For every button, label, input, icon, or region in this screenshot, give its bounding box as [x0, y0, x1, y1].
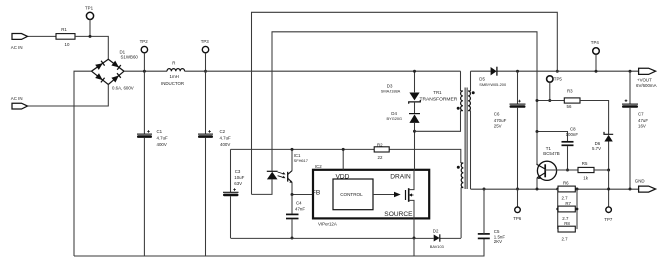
- optocoupler IC1 phototransistor: [288, 148, 294, 195]
- svg-text:400V: 400V: [220, 142, 230, 147]
- svg-text:10uF: 10uF: [234, 175, 244, 180]
- D1 diode bottom-left: [95, 73, 103, 80]
- opto light arrows: [278, 172, 284, 174]
- svg-text:2.7: 2.7: [562, 236, 569, 241]
- wire: primary bottom ground rail: [74, 239, 484, 256]
- svg-text:TRANSFORMER: TRANSFORMER: [420, 97, 458, 103]
- svg-text:C8: C8: [570, 126, 576, 131]
- svg-text:22: 22: [378, 155, 383, 160]
- svg-text:R7: R7: [565, 201, 571, 206]
- wire: LED cathode node to R3: [537, 100, 564, 102]
- wire: R1 to bridge top: [75, 36, 108, 59]
- svg-text:INDUCTOR: INDUCTOR: [161, 81, 184, 86]
- svg-text:2.7: 2.7: [562, 195, 569, 200]
- svg-text:R1: R1: [61, 27, 67, 32]
- svg-text:SMAJ188A: SMAJ188A: [381, 88, 401, 93]
- wire: LED anode rail: [252, 179, 273, 194]
- test point TP1: [85, 5, 94, 38]
- svg-text:56: 56: [567, 104, 572, 109]
- capacitor C3: [223, 149, 245, 238]
- svg-text:BYG20G: BYG20G: [387, 116, 403, 121]
- capacitor C8: [536, 126, 579, 171]
- diode D5 SMBYW05-200: [479, 67, 507, 87]
- svg-text:AC IN: AC IN: [11, 96, 23, 101]
- svg-text:0.6A, 600V: 0.6A, 600V: [112, 85, 134, 90]
- svg-text:4.7uF: 4.7uF: [157, 136, 169, 141]
- svg-text:SOURCE: SOURCE: [384, 211, 413, 218]
- svg-text:S1WB60: S1WB60: [121, 55, 139, 60]
- svg-text:TP4: TP4: [591, 40, 600, 45]
- svg-text:63V: 63V: [234, 181, 242, 186]
- wire: source rail to bottom rail link: [413, 238, 415, 256]
- wire: primary bottom to drain node: [415, 111, 461, 132]
- svg-text:TP2: TP2: [140, 39, 149, 44]
- svg-text:C1: C1: [157, 129, 163, 134]
- capacitor C7: [622, 70, 648, 191]
- wire: DC bus from bridge to inductor: [124, 70, 167, 72]
- svg-text:47nF: 47nF: [295, 206, 305, 211]
- svg-text:R8: R8: [564, 221, 570, 226]
- diode D3 SMAJ188A transil: [381, 70, 421, 104]
- secondary winding: [470, 71, 472, 91]
- core: [465, 88, 467, 190]
- wire: VDD line from C3 to aux winding: [231, 149, 461, 163]
- svg-text:6V/600mA: 6V/600mA: [636, 83, 657, 88]
- svg-text:R5: R5: [582, 161, 588, 166]
- optocoupler IC1 SFH617 LED: [267, 153, 308, 179]
- resistor R8 parallel: [558, 221, 575, 241]
- svg-text:1mH: 1mH: [170, 74, 179, 79]
- svg-text:AC IN: AC IN: [11, 45, 23, 50]
- test point TP6: [513, 189, 522, 221]
- svg-text:BC547B: BC547B: [543, 151, 559, 156]
- svg-text:5.7V: 5.7V: [592, 146, 601, 151]
- wire: AC IN bottom to bridge: [28, 85, 109, 107]
- wire: FB line to IC2: [292, 194, 313, 196]
- svg-text:C6: C6: [494, 111, 500, 116]
- svg-text:2KV: 2KV: [494, 239, 502, 244]
- diode D4 BYG20G: [387, 102, 421, 131]
- test point TP7: [604, 207, 613, 222]
- svg-text:470uF: 470uF: [494, 118, 507, 123]
- resistor R3: [564, 89, 580, 110]
- resistor R7 parallel: [556, 189, 578, 229]
- svg-text:R6: R6: [563, 180, 569, 185]
- svg-text:C3: C3: [235, 169, 241, 174]
- wire: outer feedback loop (LED anode to output): [252, 12, 558, 194]
- wire: secondary ground rail: [471, 188, 639, 190]
- resistor R2: [374, 142, 389, 160]
- connector AC IN (top): [11, 34, 28, 51]
- zener diode D6: [592, 132, 613, 170]
- svg-text:SFH617: SFH617: [294, 158, 308, 163]
- svg-text:100nF: 100nF: [566, 132, 579, 137]
- svg-text:VIPer12A: VIPer12A: [318, 222, 337, 227]
- svg-text:25V: 25V: [494, 124, 502, 129]
- wire: R3 to zener D6: [580, 101, 609, 135]
- transformer TR1: [420, 71, 475, 238]
- wire: output rail with D5: [471, 70, 639, 72]
- D1 diode top-right: [111, 61, 119, 68]
- svg-text:16V: 16V: [638, 124, 646, 129]
- svg-text:IC2: IC2: [315, 164, 322, 169]
- capacitor C5: [478, 188, 506, 245]
- resistor R6: [556, 180, 578, 200]
- connector AC IN (bottom): [11, 96, 28, 109]
- svg-text:C7: C7: [638, 111, 644, 116]
- primary winding: [460, 71, 462, 91]
- internal mosfet: [405, 190, 407, 200]
- svg-text:TP5: TP5: [554, 77, 563, 82]
- svg-text:TP3: TP3: [201, 39, 210, 44]
- svg-text:47uF: 47uF: [638, 118, 648, 123]
- bridge rectifier D1 diamond: [92, 50, 139, 91]
- svg-text:4.7uF: 4.7uF: [220, 136, 232, 141]
- wire: VDD pin: [342, 149, 344, 169]
- wire: IC2 source pin to ground rail: [413, 218, 415, 238]
- svg-text:TP7: TP7: [604, 217, 613, 222]
- svg-text:R3: R3: [567, 89, 573, 94]
- svg-text:GND: GND: [635, 178, 645, 183]
- control block: [333, 179, 373, 210]
- wire: inductor to transformer primary top: [185, 70, 461, 72]
- diode D2 BAV103: [430, 229, 444, 250]
- svg-text:SMBYW05-200: SMBYW05-200: [479, 82, 507, 87]
- svg-text:TR1: TR1: [433, 90, 442, 95]
- svg-text:D2: D2: [433, 229, 439, 234]
- wire: inner feedback loop (LED cathode to T1 collector): [272, 32, 537, 171]
- IC2 VIPer12A box: [312, 164, 429, 227]
- svg-text:D5: D5: [479, 77, 485, 82]
- wire: bridge minus to primary ground: [74, 71, 92, 256]
- svg-text:TP1: TP1: [85, 5, 94, 10]
- svg-text:1k: 1k: [583, 176, 588, 181]
- capacitor C2: [198, 71, 231, 256]
- connector +VOUT: [636, 68, 657, 88]
- svg-text:R2: R2: [377, 142, 383, 147]
- svg-text:R: R: [172, 61, 175, 66]
- svg-text:C5: C5: [494, 229, 500, 234]
- svg-text:C2: C2: [220, 129, 226, 134]
- transistor T1 BC547B: [537, 132, 578, 190]
- auxiliary winding: [461, 163, 464, 188]
- test point TP3: [201, 39, 210, 73]
- wire: primary source rail: [231, 237, 462, 239]
- wire: AC IN top to R1: [28, 35, 57, 37]
- connector GND: [635, 178, 656, 192]
- svg-text:C4: C4: [296, 201, 302, 206]
- wire: drain node to IC2 drain pin: [414, 131, 416, 170]
- wire: D6/R5 node through rail to TP7: [608, 170, 610, 207]
- capacitor C1: [137, 71, 168, 256]
- svg-text:FB: FB: [312, 189, 321, 196]
- svg-text:TP6: TP6: [513, 216, 522, 221]
- inductor L 1mH: [161, 61, 185, 86]
- svg-text:CONTROL: CONTROL: [340, 192, 363, 197]
- resistor R5: [578, 161, 610, 180]
- test point TP2: [140, 39, 149, 73]
- D1 diode top-left: [95, 63, 103, 70]
- svg-text:+VOUT: +VOUT: [637, 78, 652, 83]
- capacitor C4: [286, 195, 305, 240]
- capacitor C6: [494, 70, 526, 191]
- D1 diode bottom-right: [111, 76, 119, 83]
- gate drive arrow: [373, 194, 394, 196]
- test point TP5: [547, 76, 563, 102]
- svg-text:2.7: 2.7: [562, 216, 569, 221]
- svg-text:10: 10: [65, 42, 70, 47]
- resistor R1: [56, 27, 75, 47]
- svg-text:DRAIN: DRAIN: [390, 174, 411, 181]
- test point TP4: [591, 40, 600, 73]
- svg-text:BAV103: BAV103: [430, 244, 444, 249]
- svg-text:400V: 400V: [157, 142, 167, 147]
